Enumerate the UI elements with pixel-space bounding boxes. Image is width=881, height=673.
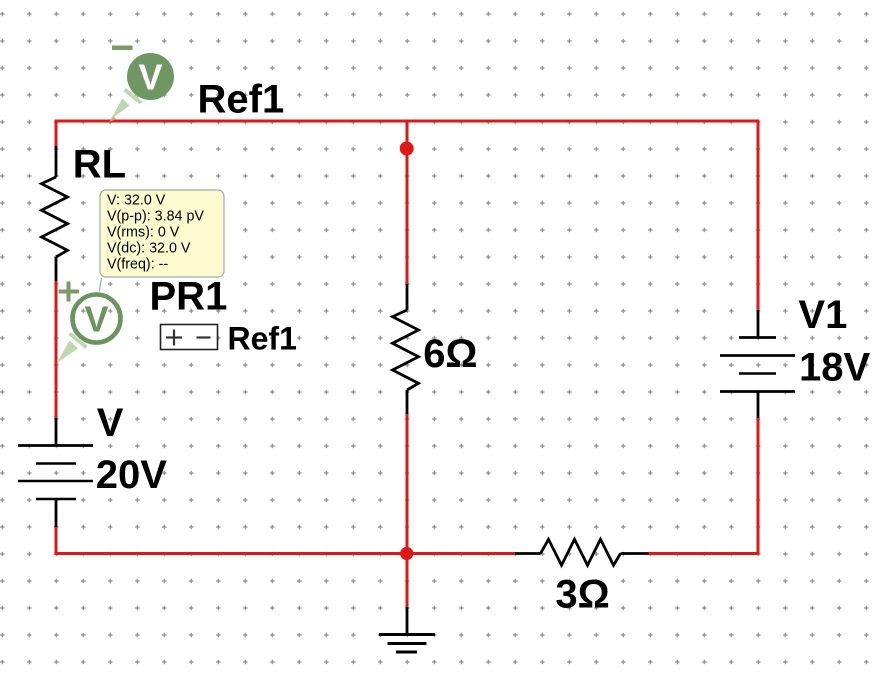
label RL bbox=[73, 143, 126, 187]
label Ref1 (middle) bbox=[228, 321, 297, 357]
wire middle lower bbox=[406, 413, 409, 608]
probe Ref1 needle tip bbox=[109, 116, 116, 122]
svg-text:V: V bbox=[97, 401, 124, 445]
resistor RL bbox=[42, 146, 68, 281]
svg-text:3Ω: 3Ω bbox=[555, 573, 609, 617]
wire bottom left segment bbox=[55, 552, 517, 555]
wire right lower bbox=[757, 417, 760, 555]
wire left lower bbox=[55, 526, 58, 555]
svg-text:V: V bbox=[138, 57, 162, 98]
probe PR1 needle collar bbox=[70, 334, 87, 348]
probe Ref1 needle shaft bbox=[111, 99, 130, 120]
svg-text:18V: 18V bbox=[799, 346, 870, 390]
svg-text:V(freq): --: V(freq): -- bbox=[107, 257, 168, 273]
minus terminal mark bbox=[197, 336, 211, 338]
probe Ref1 head circle bbox=[127, 53, 174, 100]
probe PR1 polarity indicator box bbox=[161, 325, 218, 350]
wire left upper bbox=[55, 120, 58, 148]
svg-text:V: V bbox=[84, 299, 108, 340]
ground GND bbox=[379, 607, 435, 652]
label V bbox=[97, 401, 124, 445]
battery V1 bbox=[720, 310, 795, 418]
wire left middle bbox=[55, 280, 58, 419]
tooltip callout line bbox=[99, 278, 101, 292]
wire top net Ref1 bbox=[55, 120, 760, 123]
plus terminal mark bbox=[166, 336, 182, 338]
svg-text:20V: 20V bbox=[96, 453, 167, 497]
probe PR1 needle shaft bbox=[57, 341, 78, 363]
svg-text:Ref1: Ref1 bbox=[228, 321, 297, 357]
svg-text:V(rms): 0 V: V(rms): 0 V bbox=[107, 225, 180, 241]
label Ref1 (top) bbox=[198, 78, 285, 122]
probe PR1 (voltage probe, left) bbox=[57, 282, 121, 363]
svg-text:V: 32.0 V: V: 32.0 V bbox=[107, 193, 166, 209]
probe Ref1 minus polarity mark bbox=[112, 46, 133, 51]
resistor 6ohm bbox=[393, 284, 419, 414]
probe PR1 plus polarity mark bbox=[59, 290, 80, 294]
svg-text:V(dc): 32.0 V: V(dc): 32.0 V bbox=[107, 241, 191, 257]
value label 3ohm bbox=[555, 573, 609, 617]
probe PR1 head ring bbox=[73, 295, 121, 343]
battery V bbox=[18, 418, 93, 527]
probe Ref1 (voltage reference probe, top) bbox=[109, 46, 174, 123]
wire middle upper bbox=[406, 121, 409, 285]
svg-text:6Ω: 6Ω bbox=[423, 332, 477, 376]
value label 18V bbox=[799, 346, 870, 390]
junction dot top (node between 6ohm and Ref1 net) bbox=[400, 142, 414, 156]
value label 20V bbox=[96, 453, 167, 497]
svg-text:RL: RL bbox=[73, 143, 126, 187]
label PR1 bbox=[150, 275, 228, 319]
svg-text:PR1: PR1 bbox=[150, 275, 228, 319]
svg-text:Ref1: Ref1 bbox=[198, 78, 285, 122]
resistor 3ohm bbox=[515, 539, 649, 565]
probe Ref1 needle collar bbox=[125, 90, 142, 104]
wire bottom right segment bbox=[648, 552, 760, 555]
label V1 bbox=[798, 293, 847, 337]
svg-text:V1: V1 bbox=[798, 293, 847, 337]
junction dot bottom (ground node) bbox=[400, 547, 413, 560]
svg-text:V(p-p): 3.84 pV: V(p-p): 3.84 pV bbox=[107, 209, 204, 225]
wire right upper bbox=[757, 120, 760, 311]
value label 6ohm bbox=[423, 332, 477, 376]
tooltip measurement box bbox=[100, 190, 224, 277]
